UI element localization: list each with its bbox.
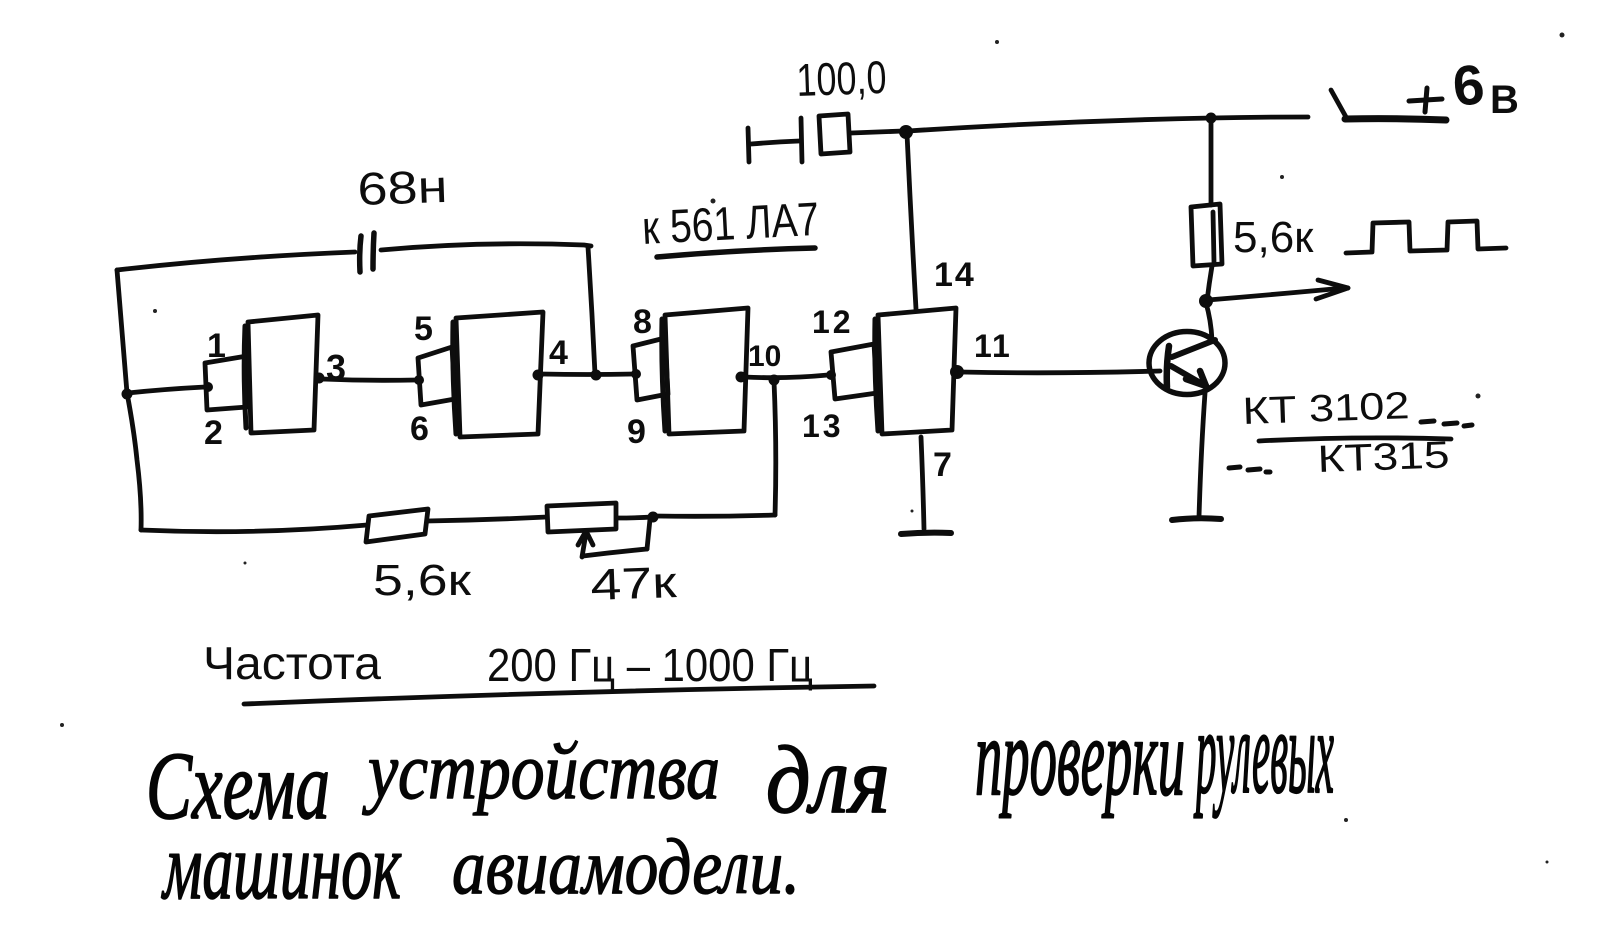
- pin 4 label: [549, 334, 568, 372]
- wire: bottom run left to pot node: [655, 515, 775, 516]
- wire: pin 4 to gate 3 input: [541, 372, 634, 377]
- label R2 5,6к: [373, 556, 472, 605]
- wire: bottom run from trunk to R2: [141, 525, 367, 532]
- node: pin 10 output dot: [736, 372, 747, 383]
- node: collector junction: [1199, 294, 1213, 308]
- label KT3102: [1242, 385, 1472, 433]
- svg-text:9: 9: [627, 413, 646, 451]
- pin 3 label: [326, 347, 346, 388]
- gate U1.3 input box: [633, 338, 668, 400]
- svg-text:1: 1: [207, 327, 226, 365]
- svg-text:10: 10: [748, 340, 781, 373]
- svg-text:В: В: [1490, 78, 1519, 122]
- pin 9 label: [627, 413, 646, 451]
- transistor collector stroke: [1172, 303, 1215, 357]
- svg-text:для: для: [766, 726, 890, 833]
- svg-text:машинок: машинок: [161, 813, 402, 919]
- label C2 value 100,0: [796, 51, 888, 106]
- gate U1.2 body: [453, 312, 543, 437]
- transistor emitter with arrow: [1171, 366, 1206, 386]
- capacitor C2 right plate box: [819, 114, 850, 154]
- fraction line: [1259, 438, 1451, 441]
- node: left input junction: [122, 389, 133, 400]
- wire: C2 to rail junction: [851, 131, 903, 133]
- gate U1.2 input box: [418, 347, 455, 405]
- node: pin 3 output dot: [314, 373, 325, 384]
- pin 11 label: [974, 328, 1012, 364]
- svg-text:рулевых: рулевых: [1193, 684, 1334, 818]
- node: feedback junction on pin4 wire: [591, 370, 602, 381]
- wire: pin 3 to gate 2 input: [322, 379, 416, 380]
- svg-text:5,6к: 5,6к: [373, 556, 472, 605]
- pin 2 label: [204, 414, 223, 452]
- svg-text:11: 11: [974, 328, 1012, 364]
- svg-text:5,6к: 5,6к: [1233, 213, 1314, 262]
- wire: emitter down: [1199, 393, 1205, 517]
- power +6V symbol: [1331, 90, 1446, 120]
- svg-text:к 561 ЛА7: к 561 ЛА7: [641, 192, 821, 254]
- node: gate1 input dot: [203, 382, 213, 392]
- label C1 value 68н: [357, 160, 449, 215]
- potentiometer R3 body: [547, 503, 616, 532]
- squarewave symbol: [1346, 221, 1506, 253]
- wire: R2 to pot: [427, 517, 547, 521]
- node: gate4 input dot: [826, 370, 836, 380]
- resistor R2 body: [366, 509, 428, 542]
- gate U1.4 input box: [831, 344, 877, 399]
- wire: left trunk vertical: [117, 270, 141, 530]
- label +6В: [1409, 52, 1519, 122]
- pin 14 label: [934, 256, 976, 294]
- output arrow: [1208, 280, 1348, 300]
- gate U1.4 body: [875, 308, 956, 434]
- pot wiper arrow: [578, 519, 650, 557]
- svg-text:Частота: Частота: [203, 637, 381, 689]
- wire: R1 bottom to collector node: [1207, 266, 1212, 301]
- svg-text:авиамодели.: авиамодели.: [452, 822, 800, 910]
- node: pin 4 output dot: [533, 370, 544, 381]
- svg-text:13: 13: [802, 408, 844, 444]
- pin 5 label: [414, 310, 433, 348]
- wire: supply rail: [908, 117, 1308, 131]
- pin 6 label: [410, 410, 429, 448]
- node: gate2 input dot: [414, 375, 424, 385]
- gate U1.1 input box: [205, 356, 247, 410]
- pin 12 label: [812, 304, 854, 340]
- svg-text:КТ315: КТ315: [1317, 434, 1450, 481]
- node: rail junction at R1: [1206, 113, 1217, 124]
- gate U1.3 body: [662, 308, 748, 434]
- pin 13 label: [802, 408, 844, 444]
- wire: pin 14 up to supply rail: [907, 134, 916, 309]
- node: pin 11 output dot: [950, 365, 964, 379]
- node: pot junction: [648, 512, 659, 523]
- wire: rail down to R1: [1209, 119, 1214, 205]
- svg-text:6: 6: [1450, 52, 1488, 118]
- svg-text:2: 2: [204, 414, 223, 452]
- node: rail junction at C2: [899, 125, 913, 139]
- wire: feedback top-left horizontal to C1: [117, 252, 355, 270]
- wire: pin 7 down: [921, 437, 924, 529]
- capacitor C1 plates: [360, 233, 374, 272]
- pin 10 label: [748, 340, 781, 373]
- wire: pin 10 to gate 4 input: [744, 375, 828, 378]
- resistor R1 body: [1191, 204, 1222, 266]
- wire: pot to junction: [617, 517, 653, 518]
- svg-text:5: 5: [414, 310, 433, 348]
- capacitor C2 left terminal: [748, 128, 799, 162]
- label IC к 561 ЛА7: [641, 192, 821, 254]
- caption line 1: [146, 684, 1334, 839]
- wire: junction to gate 1 input: [128, 387, 205, 393]
- node: bottom feedback junction on pin10 wire: [769, 375, 780, 386]
- pin 1 label: [207, 327, 226, 365]
- svg-text:12: 12: [812, 304, 854, 340]
- wire: vertical feedback down from pin10 wire: [774, 381, 776, 515]
- pin 7 label: [933, 446, 952, 484]
- label R3 47к: [590, 558, 679, 610]
- svg-text:100,0: 100,0: [796, 51, 888, 106]
- svg-text:68н: 68н: [357, 160, 449, 215]
- underline frequency: [244, 686, 874, 704]
- svg-text:6: 6: [410, 410, 429, 448]
- svg-text:7: 7: [933, 446, 952, 484]
- pin 8 label: [633, 303, 652, 341]
- capacitor C2 left plate: [801, 118, 802, 162]
- svg-text:КТ 3102: КТ 3102: [1242, 385, 1410, 433]
- label frequency range: [487, 639, 813, 691]
- label R1 5,6к: [1233, 213, 1314, 262]
- transistor base bar: [1167, 346, 1169, 387]
- label frequency Частота: [203, 637, 381, 689]
- gate U1.1 body: [244, 315, 318, 433]
- wire: C1 right lead to corner and down to node after pin 4: [381, 244, 595, 374]
- svg-text:проверки: проверки: [975, 696, 1185, 819]
- ground emitter: [1172, 518, 1221, 520]
- label KT315: [1229, 434, 1450, 481]
- wire: base from pin 11: [960, 371, 1160, 373]
- underline IC label: [657, 248, 815, 257]
- svg-text:8: 8: [633, 303, 652, 341]
- svg-text:200 Гц – 1000 Гц: 200 Гц – 1000 Гц: [487, 639, 813, 691]
- svg-text:4: 4: [549, 334, 568, 372]
- svg-text:47к: 47к: [590, 558, 679, 610]
- transistor Q1 circle: [1149, 332, 1225, 395]
- ground pin 7: [901, 533, 951, 534]
- svg-text:14: 14: [934, 256, 976, 294]
- node: gate3 input dot: [631, 369, 641, 379]
- caption line 2: [161, 813, 800, 919]
- svg-text:устройства: устройства: [361, 726, 720, 815]
